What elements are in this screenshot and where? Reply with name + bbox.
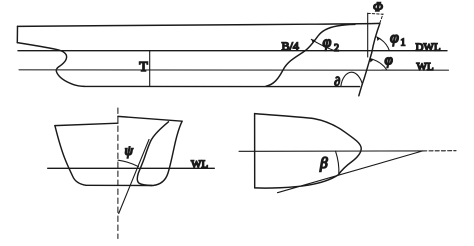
svg-text:T: T <box>139 60 148 75</box>
stem bow profile <box>359 23 380 95</box>
phi2 angle arc <box>311 39 333 50</box>
psi angle arc <box>118 160 138 166</box>
phi1 arc arrowhead <box>377 37 381 41</box>
phi1 angle arc <box>377 37 390 50</box>
waterline WL <box>19 69 449 71</box>
waterline tangent line <box>278 151 423 193</box>
flare tangent line <box>119 140 149 214</box>
waterplane outline top and nose <box>255 114 362 189</box>
body plan centerline <box>117 108 119 239</box>
svg-text:β: β <box>319 155 328 172</box>
beta angle arc <box>336 151 339 175</box>
forward perpendicular line <box>367 13 369 57</box>
waterplane centerline extension <box>423 150 456 152</box>
body plan waterline WL <box>48 167 215 169</box>
stem rake dashed tick <box>368 12 383 15</box>
section deck line port <box>55 123 118 125</box>
midship station line <box>149 51 151 87</box>
phi arc arrowhead <box>370 59 373 63</box>
design waterline DWL <box>18 50 447 52</box>
section bottom and starboard side <box>86 121 182 185</box>
svg-text:1: 1 <box>401 37 406 48</box>
bow section flare curve <box>137 122 168 186</box>
svg-text:ψ: ψ <box>125 143 134 158</box>
B/4 buttock line <box>266 24 355 86</box>
svg-text:φ: φ <box>385 53 393 69</box>
phi angle arc at WL <box>370 59 387 70</box>
svg-text:2: 2 <box>334 43 339 54</box>
deck sheer line <box>18 23 380 26</box>
svg-text:WL: WL <box>417 61 434 73</box>
svg-text:DWL: DWL <box>416 41 441 53</box>
waterplane outline left edge <box>254 114 256 188</box>
waterplane centerline <box>239 150 423 152</box>
svg-text:WL: WL <box>191 158 208 170</box>
svg-text:B/4: B/4 <box>282 39 299 53</box>
stem extension dashed <box>380 14 383 23</box>
svg-text:φ: φ <box>323 34 332 51</box>
stern transom edge <box>16 26 18 42</box>
section side port <box>55 126 86 186</box>
svg-text:φ: φ <box>390 30 399 47</box>
phi2 arc arrowhead <box>311 39 315 43</box>
keel base line <box>84 85 360 87</box>
entrance angle arc at keel <box>341 72 363 86</box>
svg-text:Φ: Φ <box>373 0 383 14</box>
svg-text:∂: ∂ <box>334 74 340 88</box>
section deck line starboard <box>118 116 182 121</box>
stern profile curve <box>17 43 84 87</box>
